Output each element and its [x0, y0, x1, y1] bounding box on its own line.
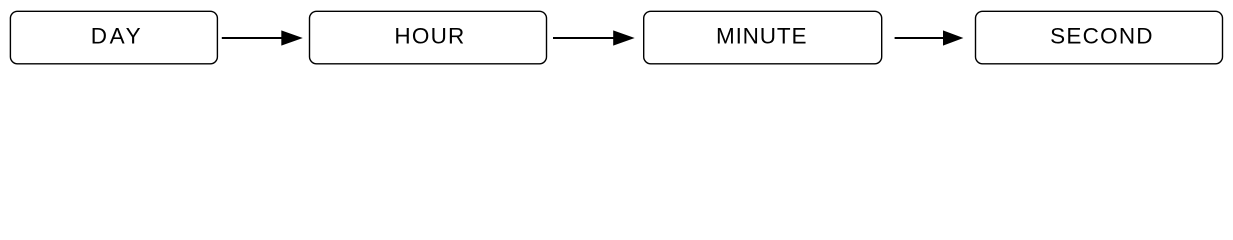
svg-text:DAY: DAY	[91, 23, 143, 48]
arrow 3	[895, 30, 964, 45]
box HOUR	[310, 11, 547, 64]
arrow 1	[222, 30, 303, 45]
svg-text:MINUTE: MINUTE	[716, 23, 807, 48]
box DAY	[10, 11, 217, 64]
box MINUTE	[644, 11, 882, 64]
svg-text:HOUR: HOUR	[394, 23, 465, 48]
arrow 2	[553, 30, 635, 45]
svg-text:SECOND: SECOND	[1050, 23, 1154, 48]
box SECOND	[976, 11, 1223, 64]
